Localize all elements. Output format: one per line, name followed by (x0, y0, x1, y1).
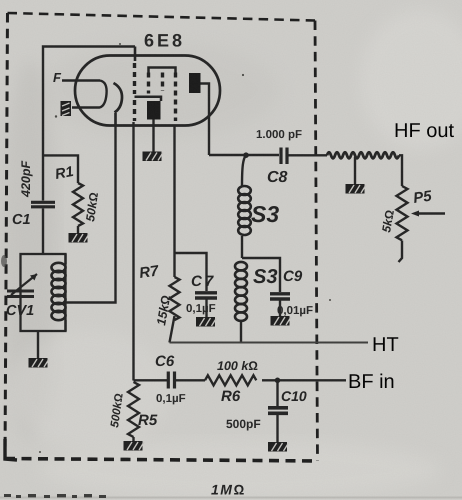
ground below coax tap (346, 184, 367, 194)
bottom-left cut text fragments (4, 494, 106, 498)
coiled output lead (327, 152, 399, 158)
grid 1 column top feed (134, 47, 137, 62)
wire S3b bottom to HT rail (240, 322, 242, 343)
capacitor C1 (31, 202, 55, 207)
grid g3 dashed column (161, 73, 164, 92)
ground at heater (vertical box) (61, 101, 72, 116)
wire C1 to V1 box (42, 209, 44, 255)
ground below C9 (271, 316, 292, 326)
P5 bottom lead (399, 241, 403, 263)
wire R1 to ground (77, 226, 79, 233)
wire S3a bottom to tee (241, 236, 243, 258)
cathode arc (114, 83, 123, 113)
ground below R5 (124, 441, 145, 451)
V1 tank box (21, 254, 66, 331)
wire screen column down to R7 junction (173, 125, 175, 253)
junction node BF/C10 (275, 378, 281, 384)
resistor R7 (170, 253, 180, 343)
grid g2 dashed column (147, 73, 150, 94)
ground below C10 (268, 442, 289, 452)
wire coax shield tap to ground (354, 157, 356, 184)
coil S3 lower (235, 262, 247, 321)
screen grids strap (149, 68, 176, 74)
ground below V1 (29, 358, 50, 368)
wire top from grid column to C1 column (43, 47, 135, 201)
CV1 arrow (11, 274, 37, 295)
capacitor C10 (268, 408, 288, 414)
cathode lead (114, 113, 116, 125)
anode wire to HF node (201, 84, 280, 156)
grid g1 dashed column (133, 63, 136, 121)
resistor R1 (73, 183, 83, 226)
junction node HF/S3 (243, 152, 249, 158)
wire C10 to ground (276, 415, 278, 442)
HT rail (170, 342, 369, 344)
heater electrode curve (72, 81, 107, 108)
P5 arrowhead (411, 211, 419, 217)
bottom scan edge line (0, 497, 462, 499)
wire C7 to ground (205, 300, 207, 318)
dashed enclosure border (8, 13, 316, 21)
wire junction to C7 (175, 253, 207, 291)
wire tee to R1 (43, 155, 78, 183)
wire C9 to ground (279, 301, 281, 317)
wire R6 to BF in (262, 379, 346, 381)
coil L (V1) spine (64, 254, 66, 331)
coil S3 upper (238, 186, 251, 235)
resistor R5 (128, 382, 139, 437)
anode A2 plate (189, 73, 201, 93)
wire C10 from junction (276, 380, 278, 406)
smudge on left border (1, 255, 7, 267)
wire A1 to ground (152, 120, 154, 152)
coil L of V1 tank (52, 263, 66, 320)
capacitor C7 (195, 293, 217, 298)
ground below C7 (196, 317, 217, 327)
wire g1 junction to anode A1 (135, 97, 162, 101)
variable capacitor CV1 plates (7, 291, 34, 297)
grid g4 dashed column (174, 73, 177, 122)
potentiometer P5 (397, 186, 408, 240)
junction to S3 upper (242, 155, 246, 186)
heater wire F (62, 79, 100, 81)
long wire grid column down to BF junction (132, 122, 134, 381)
P5 wiper arrow (415, 212, 445, 214)
wire V1 to ground (37, 331, 39, 358)
wire tee to C9 (242, 258, 280, 292)
wire C8 to border (289, 154, 328, 156)
scan speckles (39, 43, 331, 453)
capacitor C9 (270, 294, 290, 299)
anode A1 plate (147, 101, 161, 120)
wire to P5 (399, 155, 402, 186)
grid tap wire V1 to tube cathode (66, 113, 116, 303)
capacitor C8 (281, 148, 287, 165)
tube 6E8 envelope (75, 56, 220, 126)
border bottom-left corner blob (5, 439, 17, 460)
resistor R6 (205, 375, 256, 385)
wire R5 to ground (132, 437, 134, 441)
BF row wire: R5 junction to C6 (134, 379, 168, 381)
capacitor C6 (168, 372, 174, 389)
CV1 arrowhead (30, 274, 37, 281)
ground below R1 (69, 233, 90, 243)
ground below A1 (143, 152, 164, 162)
wire C6 to R6 (176, 379, 205, 381)
